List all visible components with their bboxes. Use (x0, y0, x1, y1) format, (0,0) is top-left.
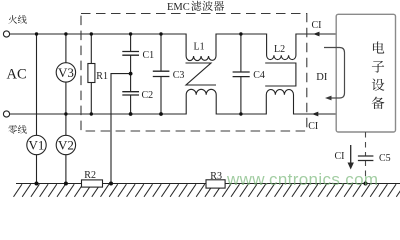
capacitor C3 (153, 71, 170, 76)
svg-text:www.cntronics.com: www.cntronics.com (226, 170, 378, 189)
capacitor C5 (358, 156, 374, 161)
svg-text:CI: CI (335, 151, 345, 162)
svg-text:R2: R2 (84, 170, 96, 181)
svg-text:CI: CI (312, 20, 322, 31)
svg-text:L1: L1 (194, 42, 205, 53)
svg-text:R1: R1 (96, 71, 108, 82)
electronic equipment box 电子设备 (336, 14, 395, 132)
capacitor C2 (122, 92, 139, 95)
junction dots neutral line (64, 112, 242, 116)
ground hatching (14, 184, 400, 197)
svg-text:EMC: EMC (167, 2, 190, 13)
arrowhead of D1 loop (325, 96, 332, 101)
capacitor C4 (233, 72, 250, 77)
svg-text:C2: C2 (142, 90, 154, 101)
svg-text:R3: R3 (210, 171, 222, 182)
wire midpoint tap to ground (111, 74, 131, 184)
resistor R1 (88, 64, 108, 83)
D1 current loop bracket (324, 48, 345, 99)
arrow CI to ground (350, 145, 352, 163)
inductor L2 core (bracket symbol) (265, 63, 296, 86)
dashed EMC filter box (81, 14, 307, 132)
wire R1 branch (90, 34, 92, 114)
svg-text:C4: C4 (253, 70, 265, 81)
label 电子设备 (vertical) (372, 41, 385, 109)
arrow CI on neutral line (312, 112, 319, 117)
svg-text:C1: C1 (143, 50, 155, 61)
terminal neutral (circle) (3, 111, 9, 117)
wire C3 branch (160, 34, 162, 114)
svg-text:V3: V3 (58, 65, 74, 80)
wire neutral line (零线) with L1/L2 winding humps (10, 89, 337, 114)
wire C1 C2 branch (130, 34, 132, 114)
junction dot capacitor midpoint (129, 72, 133, 76)
terminal hot (circle) (3, 31, 9, 37)
wire hot line (火线) with L1/L2 winding dips (10, 34, 337, 61)
resistor R2 (in ground line) (82, 170, 103, 187)
label 滤波器 (after EMC) (191, 1, 224, 11)
voltmeter V1 (27, 135, 46, 154)
junction dots ground line (35, 182, 368, 186)
wire V3/V2 branch (65, 34, 67, 184)
resistor R3 (in ground line) (206, 171, 225, 188)
inductor L1 core (Z symbol) (186, 63, 217, 85)
label 火线 (8, 15, 26, 24)
arrow CI on hot line (313, 32, 320, 37)
label 零线 (8, 125, 26, 134)
svg-text:V1: V1 (29, 138, 45, 153)
svg-text:CI: CI (308, 121, 318, 132)
svg-text:C5: C5 (379, 153, 391, 164)
svg-text:AC: AC (7, 67, 27, 83)
dashed wire from equipment to C5/ground (365, 132, 367, 184)
capacitor C1 (122, 52, 139, 56)
svg-text:L2: L2 (274, 44, 285, 55)
wire V1 branch (hot to ground) (36, 34, 38, 184)
wire C4 branch (240, 34, 242, 114)
voltmeter V3 (56, 63, 75, 82)
ground line (16, 183, 400, 185)
svg-text:C3: C3 (173, 70, 185, 81)
svg-text:V2: V2 (58, 138, 74, 153)
voltmeter V2 (56, 135, 75, 154)
junction dots hot line (35, 32, 243, 35)
svg-text:DI: DI (316, 72, 328, 83)
